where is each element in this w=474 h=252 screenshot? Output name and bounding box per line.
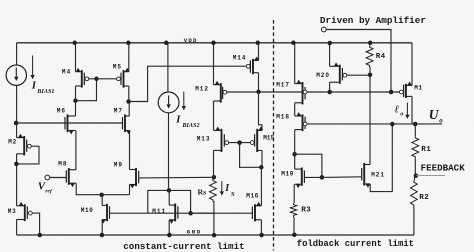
wire: R4 bottom to node E <box>369 67 371 75</box>
wire: VDD to M4 source <box>75 43 77 72</box>
terminal driven-by-amplifier <box>321 27 326 32</box>
wire: VDD to IBIAS2 <box>167 43 169 92</box>
node FEEDBACK <box>414 173 419 178</box>
node C: M15 drain / M16 drain <box>259 165 264 170</box>
wire: M19 source to R3 <box>293 184 295 203</box>
node: M20 at VDD rail <box>328 41 333 46</box>
label I_BIAS2 <box>175 92 199 129</box>
node: M14 drain on M12-M17 gate net <box>256 90 261 95</box>
wire: VDD to M17 drain <box>294 43 296 84</box>
label M3 <box>8 208 17 215</box>
wire: IBIAS2 to tail mirror node <box>168 113 170 191</box>
label M14 <box>233 55 247 62</box>
wire: tail line <box>102 194 130 196</box>
label M18 <box>276 114 290 121</box>
wire: M4 gate tie-down <box>76 79 97 101</box>
transistor M21 <box>362 163 371 188</box>
wire: M20 drain to gate net <box>329 82 331 92</box>
label M16 <box>246 192 259 199</box>
transistor M13 <box>214 127 229 153</box>
wire: left bus top segment <box>16 43 18 65</box>
wire: Rs bottom jog <box>213 201 214 213</box>
wire: M6 source to M8 drain <box>75 131 77 170</box>
wire: FEEDBACK node to R2 <box>414 176 416 181</box>
caption constant-current limit <box>123 241 244 252</box>
label M20 <box>316 72 330 79</box>
transistor M6 <box>65 114 76 134</box>
wire: VDD rail corner to M1 source <box>411 43 413 86</box>
wire: M4 drain to node A <box>75 86 77 101</box>
wire: output line Uo <box>307 123 442 125</box>
node: R3 at GND rail <box>292 233 297 238</box>
node: M5 at VDD rail <box>126 41 131 46</box>
wire: R3 to GND rail <box>293 217 295 235</box>
wire: VDD to M5 source <box>128 43 130 72</box>
node: Rs at GND rail <box>212 233 217 238</box>
wire: M14 drain net to M15 source <box>259 92 263 130</box>
node A: M4 drain / M6 drain <box>73 98 78 103</box>
power label VDD <box>184 37 198 44</box>
transistor M3 <box>17 202 33 221</box>
wire: M6/M7 gate line from bus <box>17 122 123 124</box>
label FEEDBACK <box>421 162 466 173</box>
wire: M20 gate to R4 node <box>347 74 370 76</box>
node: M3 gate at GND rail <box>38 233 43 238</box>
transistor M8 <box>66 168 76 187</box>
wire: M19 diode loop <box>295 154 322 177</box>
label R2 <box>419 194 429 202</box>
wire: M8 source to tail line <box>76 183 102 195</box>
wire: M2 gate loop <box>17 146 39 164</box>
wire: M13 source to Rs <box>213 150 215 177</box>
wire: Rs bottom to gate line corner <box>191 212 214 214</box>
wire: node E down to M21 drain <box>369 75 371 165</box>
node: M17 at VDD rail <box>291 41 296 46</box>
wire: VDD to R4 <box>369 43 371 46</box>
label Rs <box>198 187 207 196</box>
node: R4 at VDD rail <box>368 41 373 46</box>
node: M10 drain on tail line <box>99 193 104 198</box>
wire: M12 source to M13 drain <box>213 101 215 130</box>
node D: M18 source / M19 drain <box>292 152 297 157</box>
wire: M9 source to tail line <box>129 185 131 195</box>
wire: node C to M16 drain <box>260 167 262 206</box>
label I_BIAS1 <box>30 56 54 96</box>
label M9 <box>114 161 123 168</box>
wire: node A to M6 drain <box>75 101 77 116</box>
wire: R2 to GND rail <box>413 207 415 235</box>
wire: R1 to FEEDBACK node <box>414 158 416 175</box>
label I_S <box>220 181 235 198</box>
label M17 <box>276 81 290 88</box>
node: M16 at GND rail <box>259 233 264 238</box>
transistor M15 <box>250 127 263 153</box>
wire: VDD to M14 source <box>258 43 260 61</box>
node: M11 at GND rail <box>167 233 172 238</box>
label M13 <box>197 135 211 142</box>
label V_ref <box>38 181 53 195</box>
label R1 <box>421 146 431 154</box>
wire: M4-M5 gate line <box>89 78 117 80</box>
transistor M19 <box>295 168 305 189</box>
label M15 <box>263 135 274 142</box>
transistor M1 <box>400 82 413 99</box>
transistor M11 <box>169 204 178 224</box>
wire: M16 source to GND <box>260 220 262 235</box>
transistor M12 <box>214 81 227 103</box>
transistor M7 <box>123 114 131 134</box>
label M8 <box>58 160 67 167</box>
label R3 <box>301 207 311 215</box>
wire: M11 drain lead <box>168 190 170 205</box>
wire: M7 source to M9 drain <box>129 131 131 170</box>
node: M4 at VDD rail <box>72 41 77 46</box>
caption foldback current limit <box>297 239 414 249</box>
label I_o <box>395 103 410 119</box>
label Driven by Amplifier <box>320 15 426 26</box>
current source IBIAS1 <box>6 65 26 85</box>
transistor M10 <box>101 204 109 224</box>
wire: VDD to M20 source <box>329 43 331 66</box>
wire: gate junction to M19 gate <box>304 176 322 178</box>
wire: M13-M15 gate line <box>229 142 251 144</box>
wire: M21 source to output <box>370 124 392 192</box>
node: M13/M15 gate junction <box>237 140 242 145</box>
transistor M18 <box>295 112 305 131</box>
pin bubble M17 gate <box>303 90 307 94</box>
wire: mirror loop right arm <box>169 190 191 213</box>
node: M20 drain on gate net <box>327 90 332 95</box>
wire: Rs corner to GND rail <box>213 213 215 235</box>
label M11 <box>152 208 166 215</box>
label M6 <box>57 107 66 114</box>
wire: M5 drain to node B <box>128 86 130 102</box>
transistor M2 <box>17 134 32 156</box>
wire: M10 drain to tail line <box>101 195 103 206</box>
wire: M10 source to GND <box>101 220 103 235</box>
resistor R3 <box>290 203 296 217</box>
wire: left bus M2 to M3 <box>16 154 18 206</box>
wire: M18 source to node D <box>294 130 296 155</box>
node: M19/M21 gate junction <box>320 175 325 180</box>
transistor M20 <box>330 62 347 83</box>
wire: FEEDBACK stub <box>416 175 445 177</box>
wire: GND bottom rail <box>17 234 414 236</box>
transistor M14 <box>246 57 259 75</box>
transistor M5 <box>117 68 130 88</box>
wire: left bus M3 to GND rail <box>16 220 18 236</box>
node: M11 drain / IBIAS2 junction <box>167 188 172 193</box>
node E: R4 / M20 gate / M21 drain <box>368 73 373 78</box>
label M12 <box>195 85 209 92</box>
resistor R2 <box>411 181 418 207</box>
label M1 <box>414 85 423 92</box>
node: M2 gate loop junction <box>14 162 19 167</box>
wire: node B to M7 drain <box>128 102 130 117</box>
wire: M15 drain to node C <box>261 150 263 167</box>
transistor M17 <box>295 80 305 105</box>
wire: amplifier drive line <box>326 30 391 93</box>
label M19 <box>281 170 294 177</box>
label M7 <box>114 107 123 114</box>
wire: M9 gate line to Rs top <box>139 176 214 179</box>
node: M14 at VDD rail <box>256 41 261 46</box>
resistor Rs <box>210 179 217 201</box>
node: M21 source at output line <box>390 122 395 127</box>
wire: M14 drain to gate net <box>258 73 260 92</box>
node: Rs top / M9 gate sense <box>212 175 217 180</box>
wire: node B to M14 gate <box>129 66 247 101</box>
wire: VDD to M12 drain <box>213 43 215 85</box>
node: output at R1 top <box>413 122 418 127</box>
wire: V_ref to M8 gate <box>50 177 67 179</box>
node: gate line junction <box>188 211 193 216</box>
label M21 <box>371 171 385 178</box>
node: M10 at GND rail <box>100 233 105 238</box>
wire: mirror loop left arm <box>148 190 169 213</box>
terminal V_ref <box>45 175 50 180</box>
wire: M3 gate loop to ground <box>32 213 39 235</box>
label M2 <box>8 138 17 145</box>
resistor R1 <box>412 136 419 158</box>
wire: gate junction tie-down <box>240 143 262 168</box>
label M4 <box>62 68 71 75</box>
wire: M11 source to GND <box>168 220 170 235</box>
transistor M16 <box>252 202 261 222</box>
wire: output to R1 <box>414 124 416 136</box>
separator dashed line <box>273 20 275 251</box>
node: IBIAS2 at VDD rail <box>164 41 169 46</box>
transistor M4 <box>76 68 89 88</box>
pin bubble M18 gate <box>303 122 307 126</box>
current source IBIAS2 <box>158 92 179 113</box>
node: drive line on gate net <box>389 90 394 95</box>
wire: M1 drain to output node <box>411 96 413 124</box>
label R4 <box>376 53 386 61</box>
wire: M17 source to M18 drain <box>294 103 296 116</box>
node: M12 at VDD rail <box>211 41 216 46</box>
node: M4/M5 gate junction <box>94 77 99 82</box>
label M10 <box>81 207 94 214</box>
transistor M9 <box>130 168 139 189</box>
wire: M10/M11/M16 gate line <box>110 212 253 214</box>
ground label GND <box>187 229 202 236</box>
wire: VDD top rail <box>17 42 412 44</box>
node: M6/M7 gate tap on left bus <box>14 121 19 126</box>
resistor R4 <box>366 46 373 67</box>
wire: gate junction to M21 gate <box>322 176 362 179</box>
label M5 <box>113 63 122 70</box>
wire: M12 gate net line <box>227 91 400 93</box>
wire: left bus below IBIAS1 <box>16 85 18 137</box>
wire: node D to M19 drain <box>294 154 296 169</box>
label U_o <box>429 107 444 125</box>
node B: M5/M7 drains second stage <box>126 99 131 104</box>
